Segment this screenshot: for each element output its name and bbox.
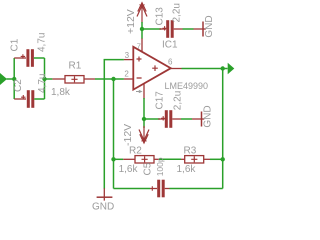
svg-text:C13: C13 bbox=[154, 7, 165, 26]
wire R1 to inverting node bbox=[95, 78, 124, 80]
svg-text:C5: C5 bbox=[143, 162, 154, 175]
wire caps to R1 bbox=[45, 78, 53, 80]
node output junction bbox=[221, 66, 225, 70]
svg-text:LME49990: LME49990 bbox=[165, 81, 209, 91]
svg-text:C2: C2 bbox=[13, 79, 24, 92]
wire output bbox=[182, 68, 228, 70]
input connector bbox=[0, 73, 12, 85]
node after caps junction bbox=[42, 77, 46, 81]
wire R2 to R3 bbox=[159, 158, 181, 160]
svg-text:C17: C17 bbox=[154, 91, 165, 110]
svg-text:3: 3 bbox=[125, 51, 130, 60]
pin 4 arrow mark bbox=[136, 90, 142, 92]
svg-text:7: 7 bbox=[137, 42, 141, 51]
svg-text:1,6k: 1,6k bbox=[177, 164, 197, 175]
node +12V junction bbox=[140, 27, 144, 31]
wire bottom feedback right bbox=[170, 188, 223, 190]
svg-text:R1: R1 bbox=[69, 61, 82, 72]
svg-text:GND: GND bbox=[204, 15, 215, 37]
wire input left vertical bbox=[13, 58, 15, 99]
capacitor C1 bbox=[14, 49, 44, 67]
node R2 left junction bbox=[111, 157, 115, 161]
resistor R3 bbox=[181, 156, 210, 163]
svg-text:4,7u: 4,7u bbox=[37, 74, 48, 93]
svg-text:2: 2 bbox=[124, 70, 129, 79]
svg-text:R2: R2 bbox=[129, 146, 142, 157]
wire feedback right vertical bbox=[222, 69, 224, 189]
resistor R1 bbox=[52, 76, 95, 83]
wire node to C17 bbox=[144, 118, 160, 120]
svg-text:IC1: IC1 bbox=[162, 40, 178, 51]
capacitor C2 bbox=[14, 90, 44, 108]
ground GND right of C17 bbox=[192, 112, 204, 127]
svg-text:-12V: -12V bbox=[122, 124, 134, 146]
svg-text:1,8k: 1,8k bbox=[51, 87, 71, 98]
wire ground net: corner to pin3 and down to GND bbox=[104, 60, 124, 189]
node feedback R3 junction bbox=[221, 157, 225, 161]
wire C13 to GND bbox=[183, 28, 194, 30]
svg-text:4,7u: 4,7u bbox=[37, 33, 48, 52]
svg-text:+12V: +12V bbox=[125, 9, 137, 34]
svg-text:100p: 100p bbox=[155, 157, 165, 176]
ground GND right of C13 bbox=[194, 22, 206, 37]
svg-text:C1: C1 bbox=[10, 38, 21, 51]
svg-text:R3: R3 bbox=[184, 146, 197, 157]
capacitor C13 bbox=[160, 20, 183, 38]
wire +12V node to C13 bbox=[142, 28, 161, 30]
node -12V junction bbox=[142, 117, 146, 121]
capacitor C5 bbox=[150, 180, 169, 198]
svg-text:6: 6 bbox=[168, 58, 173, 67]
svg-text:GND: GND bbox=[202, 105, 213, 127]
svg-text:1,6k: 1,6k bbox=[119, 164, 139, 175]
wire node to R2 bbox=[114, 158, 124, 160]
wire R3 to output node bbox=[210, 158, 223, 160]
wire +12V to pin7 bbox=[141, 22, 143, 39]
wire pin4 to -12V node bbox=[143, 98, 145, 128]
wire inverting node down to R2 bbox=[113, 79, 115, 189]
output connector bbox=[228, 63, 235, 75]
wire C1 C2 right vertical bbox=[44, 58, 46, 99]
wire bottom feedback left bbox=[114, 188, 151, 190]
node IN junction bbox=[12, 77, 16, 81]
node inverting input junction bbox=[111, 77, 115, 81]
svg-text:GND: GND bbox=[92, 201, 114, 212]
supply +12V bbox=[137, 3, 147, 23]
wire C17 to GND bbox=[181, 118, 192, 120]
resistor R2 bbox=[123, 156, 159, 163]
supply -12V bbox=[139, 126, 149, 143]
svg-text:2,2u: 2,2u bbox=[172, 91, 183, 110]
ground GND bottom bbox=[97, 188, 113, 200]
svg-text:2,2u: 2,2u bbox=[171, 3, 182, 22]
capacitor C17 bbox=[158, 110, 181, 128]
op-amp IC1 bbox=[124, 38, 182, 99]
